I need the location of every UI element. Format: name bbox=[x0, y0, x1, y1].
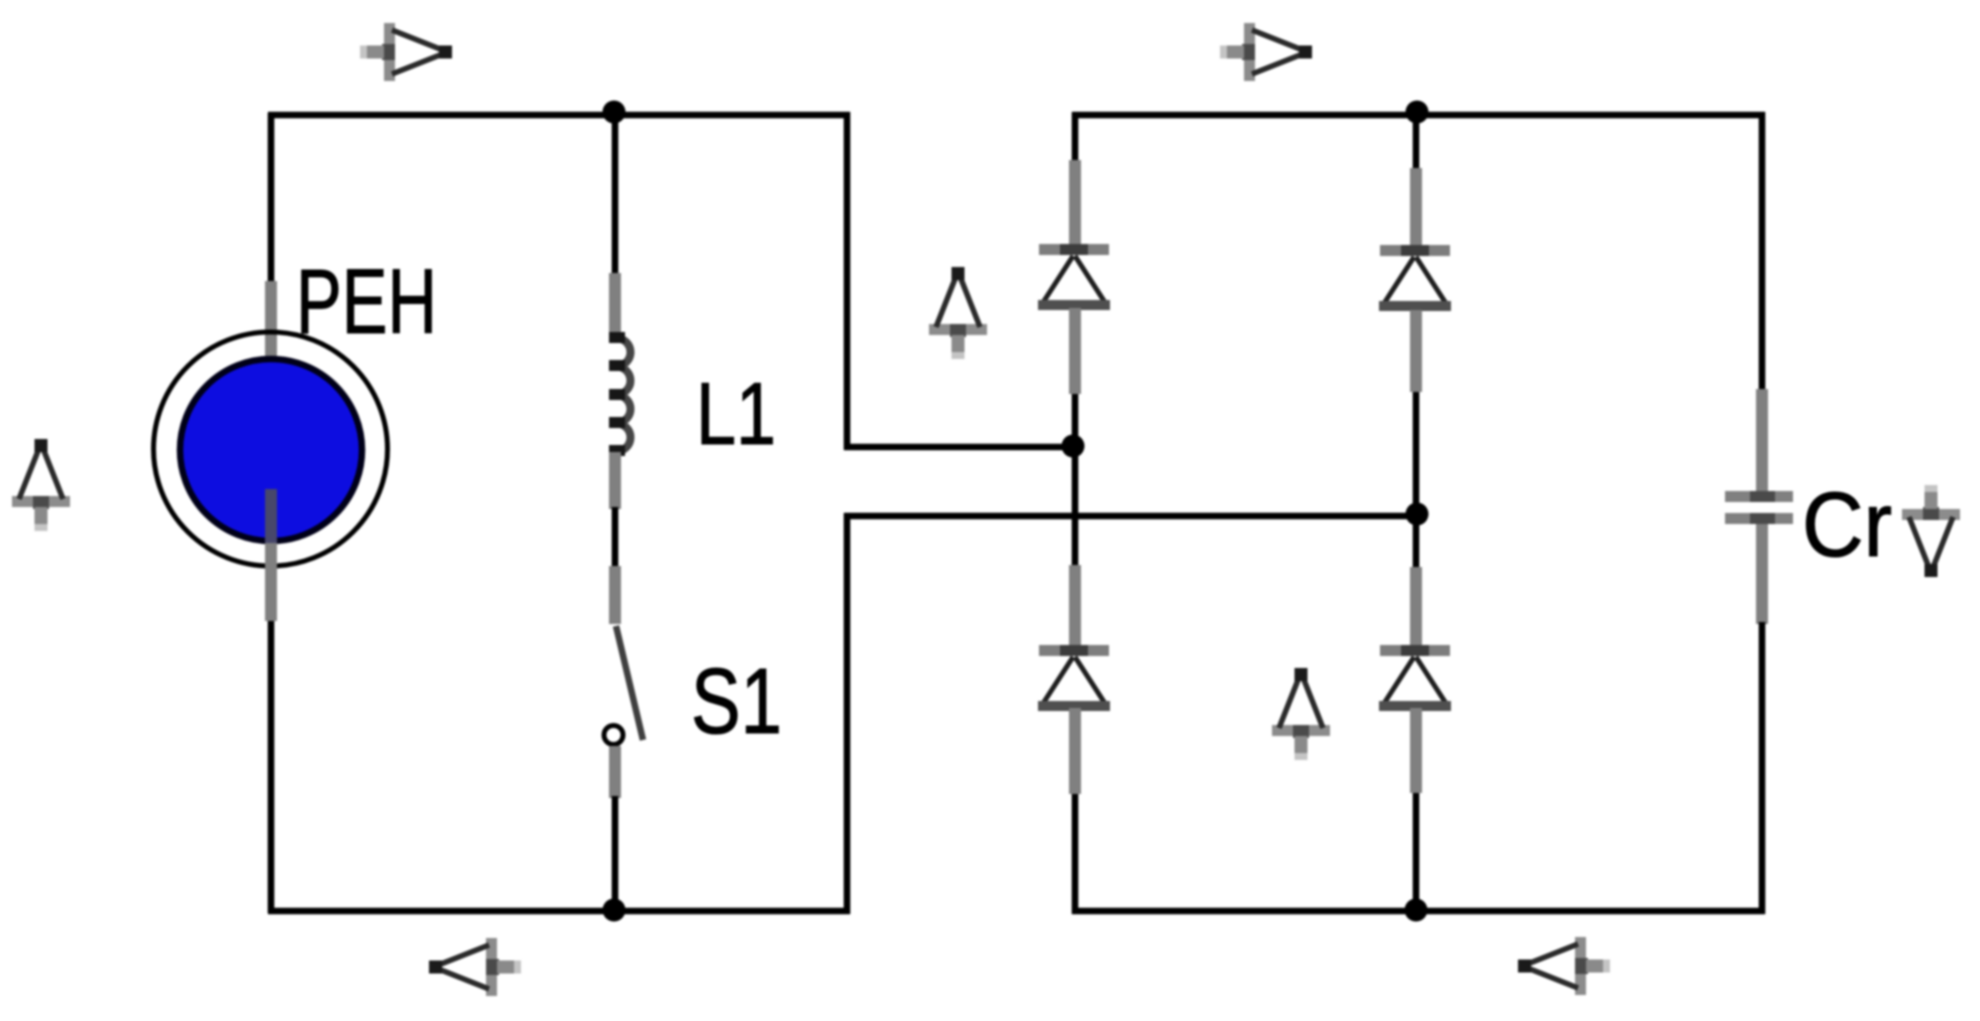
capacitor Cr bottom plate bbox=[1725, 513, 1793, 524]
switch S1 contact circle bbox=[604, 726, 623, 745]
diode D4 bbox=[1379, 645, 1451, 711]
node: bridge right AC input bbox=[1406, 503, 1429, 526]
svg-text:Cr: Cr bbox=[1802, 474, 1892, 576]
inductor L1 bottom gray lead bbox=[609, 452, 621, 509]
diode D1 bottom gray lead bbox=[1069, 308, 1081, 394]
arrow: top-right current (right) bbox=[1220, 23, 1312, 81]
wire: bridge top horizontal bbox=[1072, 112, 1765, 119]
PEH bottom lead over disc bbox=[265, 489, 277, 545]
capacitor Cr bottom gray lead bbox=[1756, 524, 1768, 624]
diode D2 top gray lead bbox=[1410, 168, 1422, 246]
wire: middle lower horizontal to bridge right input bbox=[844, 513, 1417, 520]
diode D2 bottom gray lead bbox=[1410, 310, 1422, 392]
wire: left vertical lower (PEH to bottom) bbox=[268, 618, 275, 913]
PEH top gray lead bbox=[265, 281, 277, 359]
svg-text:L1: L1 bbox=[696, 364, 776, 463]
PEH bottom gray lead bbox=[265, 543, 277, 621]
arrow: output current at Cr (down) bbox=[1902, 485, 1960, 577]
diode D1 top gray lead bbox=[1069, 160, 1081, 246]
node: bridge left AC input bbox=[1062, 435, 1085, 458]
diode D4 bottom gray lead bbox=[1410, 708, 1422, 793]
arrow: bridge bottom current (up) bbox=[1272, 668, 1330, 760]
wire: branch middle segment bbox=[612, 507, 619, 567]
arrow: bridge left current (up) bbox=[929, 267, 987, 359]
diode D2 bbox=[1379, 245, 1451, 311]
node: bottom of S1 branch bbox=[603, 899, 626, 922]
PEH outer ring bbox=[154, 332, 388, 566]
wire: right vertical of left loop, upper segment bbox=[844, 112, 851, 450]
wire: bridge left vertical segments bbox=[1072, 112, 1079, 162]
wire: top-left horizontal (PEH top to corner) bbox=[268, 112, 850, 119]
wire: middle upper horizontal to bridge left input bbox=[844, 444, 1075, 451]
wire: capacitor vertical upper bbox=[1759, 112, 1766, 391]
arrow: bottom-right current (left) bbox=[1518, 937, 1610, 995]
inductor L1 top gray lead bbox=[609, 273, 621, 334]
PEH blue disc bbox=[180, 359, 362, 541]
wire: bridge bottom horizontal bbox=[1072, 908, 1765, 915]
switch S1 top gray lead bbox=[609, 566, 621, 624]
node: top of L1 branch bbox=[603, 101, 626, 124]
wire: bridge right vertical segments bbox=[1413, 112, 1420, 170]
capacitor Cr top plate bbox=[1725, 491, 1793, 502]
diode D1 bbox=[1038, 244, 1110, 310]
diode D4 top gray lead bbox=[1410, 567, 1422, 647]
arrow: bottom-left current (left) bbox=[429, 938, 521, 996]
switch S1 blade bbox=[616, 626, 643, 740]
wire: left vertical upper (to PEH) bbox=[268, 113, 275, 285]
diode D3 bbox=[1038, 645, 1110, 711]
switch S1 bottom gray lead bbox=[609, 746, 621, 798]
wire: bottom-left horizontal bbox=[268, 908, 850, 915]
diode D3 top gray lead bbox=[1069, 565, 1081, 647]
svg-text:S1: S1 bbox=[691, 649, 782, 753]
node: bridge top output bbox=[1406, 101, 1429, 124]
wire: branch lower bbox=[612, 796, 619, 911]
wire: right vertical of left loop, lower segment bbox=[844, 513, 851, 914]
inductor L1 coil bbox=[616, 338, 631, 452]
arrow: top-left current (right) bbox=[360, 23, 452, 81]
capacitor Cr top gray lead bbox=[1756, 389, 1768, 492]
wire: capacitor vertical lower bbox=[1759, 622, 1766, 914]
wire: branch upper bbox=[612, 112, 619, 275]
arrow: far-left current (up) bbox=[12, 439, 70, 531]
node: bridge bottom output bbox=[1405, 899, 1428, 922]
diode D3 bottom gray lead bbox=[1069, 708, 1081, 794]
svg-text:PEH: PEH bbox=[296, 251, 437, 353]
